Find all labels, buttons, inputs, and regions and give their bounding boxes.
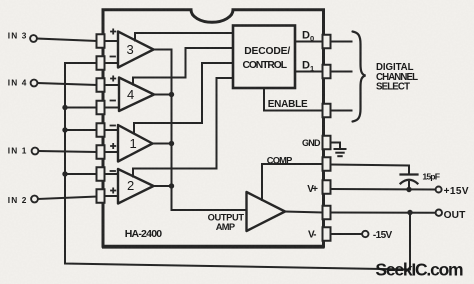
wire pin -IN2 to amp A2: [105, 173, 119, 175]
op-amp A1: [111, 125, 153, 162]
capacitor C1 15pF: [401, 175, 418, 190]
wire bus stub to pin -IN2: [65, 173, 97, 175]
wire A3 output: [154, 49, 172, 51]
wire IN3 to pin +IN3: [37, 39, 97, 42]
terminal IN 1: [32, 148, 39, 155]
wire IN2 to pin +IN2: [38, 197, 97, 200]
wire IN4 to pin +IN4: [38, 83, 97, 85]
wire IN1 to pin +IN1: [39, 151, 97, 152]
pin +IN1: [97, 145, 105, 159]
pin OUT: [323, 206, 331, 220]
IC package U1 HA-2400 outline with notch: [103, 10, 324, 247]
wire GND pin to ground: [331, 143, 341, 150]
wire bus stub to pin -IN1: [65, 129, 97, 131]
wire enable select channel 1: [134, 63, 233, 134]
wire D0 decode to pin: [295, 41, 323, 43]
wire D0 pin to brace: [331, 41, 352, 43]
pin ENABLE: [323, 104, 331, 118]
pin +IN3: [97, 34, 105, 48]
pin V-: [323, 227, 331, 241]
op-amp A3: [111, 29, 154, 67]
junction OUT feedback: [407, 210, 412, 215]
pin COMP: [323, 157, 331, 171]
junction C1 to V+ rail: [406, 187, 411, 192]
pins: left side of package: [97, 34, 331, 241]
pin D0: [323, 35, 331, 49]
terminal IN 4: [31, 80, 38, 87]
junction bus -IN1: [62, 127, 67, 132]
input/output terminals: [30, 35, 442, 237]
terminal IN 3: [30, 35, 37, 42]
pin -IN4: [97, 101, 105, 115]
junction A2 output: [169, 183, 174, 188]
pin D1: [323, 65, 331, 79]
pin V+: [323, 180, 331, 194]
wire V- pin to -15V terminal: [331, 233, 363, 235]
wire pin -IN3 to amp A3: [105, 62, 119, 64]
wire feedback bus: inverting inputs to output node: [65, 63, 410, 270]
wire COMP pin to output amp: [262, 164, 323, 200]
terminal IN 2: [31, 196, 38, 203]
terminal +15V: [436, 187, 442, 193]
wire enable select channel 3: [135, 33, 233, 41]
junction bus -IN2: [62, 171, 67, 176]
junction A4 output: [169, 92, 174, 97]
pin +IN4: [97, 78, 105, 92]
junction A1 output: [169, 141, 174, 146]
terminal -15V: [362, 231, 368, 237]
junction bus -IN4: [62, 105, 67, 110]
op-amp U3 output amp: [247, 192, 286, 231]
wire pin -IN1 to amp A1: [105, 129, 119, 131]
wire D1 pin to brace: [331, 71, 352, 73]
ground symbol: [335, 149, 346, 156]
wire pin +IN3 to amp A3: [105, 40, 119, 42]
wire pin +IN1 to amp A1: [105, 151, 119, 153]
wire ENABLE decode to pin: [264, 88, 323, 111]
wire bus stub to pin -IN4: [65, 107, 97, 109]
wire COMP pin to capacitor C1: [331, 165, 410, 175]
wire A4 output: [154, 94, 172, 96]
wire output amp to OUT pin: [285, 212, 323, 213]
pin -IN2: [97, 167, 105, 181]
wire enable select channel 4: [133, 48, 233, 85]
wire D1 decode to pin: [295, 71, 323, 73]
wire ENABLE pin to brace: [331, 110, 352, 112]
wire A2 output: [154, 185, 172, 187]
wire OUT pin to OUT terminal: [331, 212, 436, 214]
decode/control block U2: [233, 26, 295, 89]
pin GND: [323, 136, 331, 150]
op-amp A2: [111, 169, 154, 204]
wire V+ pin to +15V terminal: [331, 188, 436, 191]
pin +IN2: [97, 189, 105, 203]
op-amp A4: [111, 76, 155, 111]
wire pin +IN2 to amp A2: [105, 195, 119, 197]
brace digital channel select: [353, 32, 366, 122]
wire common output node to output amp: [172, 50, 247, 211]
terminal OUT: [436, 210, 442, 216]
wire enable select channel 2: [133, 78, 233, 177]
pin -IN3: [97, 56, 105, 70]
wire pin -IN4 to amp A4: [105, 107, 120, 109]
pin -IN1: [97, 123, 105, 137]
wire A1 output: [153, 143, 172, 145]
wire pin +IN4 to amp A4: [105, 84, 120, 86]
